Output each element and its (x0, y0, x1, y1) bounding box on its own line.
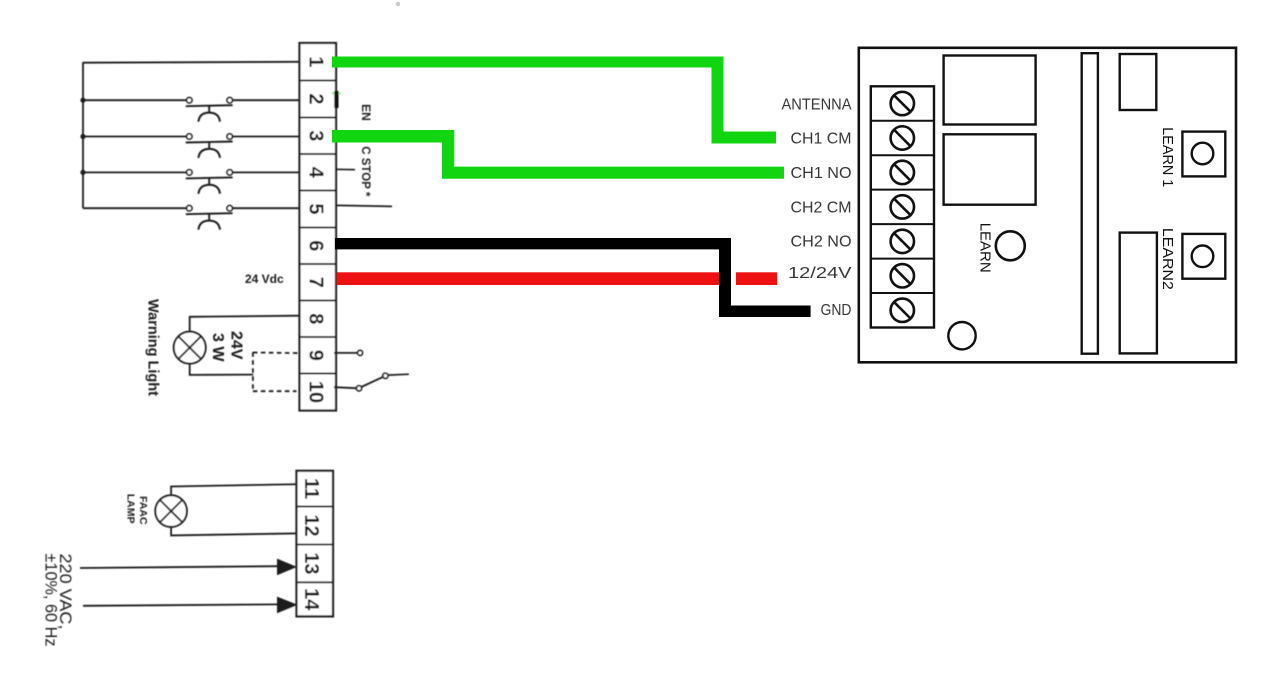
svg-text:6: 6 (305, 240, 327, 251)
svg-text:EN: EN (359, 104, 373, 121)
svg-text:12: 12 (300, 514, 322, 536)
svg-text:13: 13 (300, 552, 322, 574)
svg-text:ANTENNA: ANTENNA (782, 97, 852, 114)
svg-text:1: 1 (305, 56, 327, 67)
svg-text:CH1 NO: CH1 NO (791, 165, 852, 182)
svg-text:3: 3 (305, 130, 327, 141)
svg-text:LEARN: LEARN (977, 223, 994, 273)
svg-text:LEARN 1: LEARN 1 (1159, 127, 1176, 187)
svg-text:GND: GND (821, 302, 852, 319)
svg-text:Warning Light: Warning Light (144, 299, 160, 396)
svg-text:12/24V: 12/24V (788, 265, 852, 282)
svg-text:14: 14 (300, 588, 322, 611)
svg-text:24 Vdc: 24 Vdc (245, 272, 284, 286)
svg-text:LEARN2: LEARN2 (1159, 228, 1176, 290)
svg-text:11: 11 (300, 478, 322, 499)
svg-text:24V: 24V (228, 331, 245, 360)
svg-text:9: 9 (305, 350, 327, 361)
svg-text:FAAC: FAAC (137, 496, 149, 525)
svg-text:4: 4 (305, 167, 327, 179)
svg-text:±10%, 60 Hz: ±10%, 60 Hz (41, 554, 60, 647)
svg-text:5: 5 (305, 203, 327, 214)
svg-text:C STOP *: C STOP * (359, 146, 371, 197)
svg-text:8: 8 (305, 313, 327, 324)
svg-text:LAMP: LAMP (124, 494, 136, 524)
svg-text:7: 7 (305, 277, 327, 288)
svg-text:3 W: 3 W (209, 333, 226, 362)
svg-text:CH2 NO: CH2 NO (791, 234, 852, 251)
svg-text:CH1 CM: CH1 CM (791, 130, 852, 147)
svg-text:2: 2 (305, 93, 327, 104)
svg-text:10: 10 (305, 381, 327, 403)
svg-text:CH2 CM: CH2 CM (791, 199, 852, 216)
